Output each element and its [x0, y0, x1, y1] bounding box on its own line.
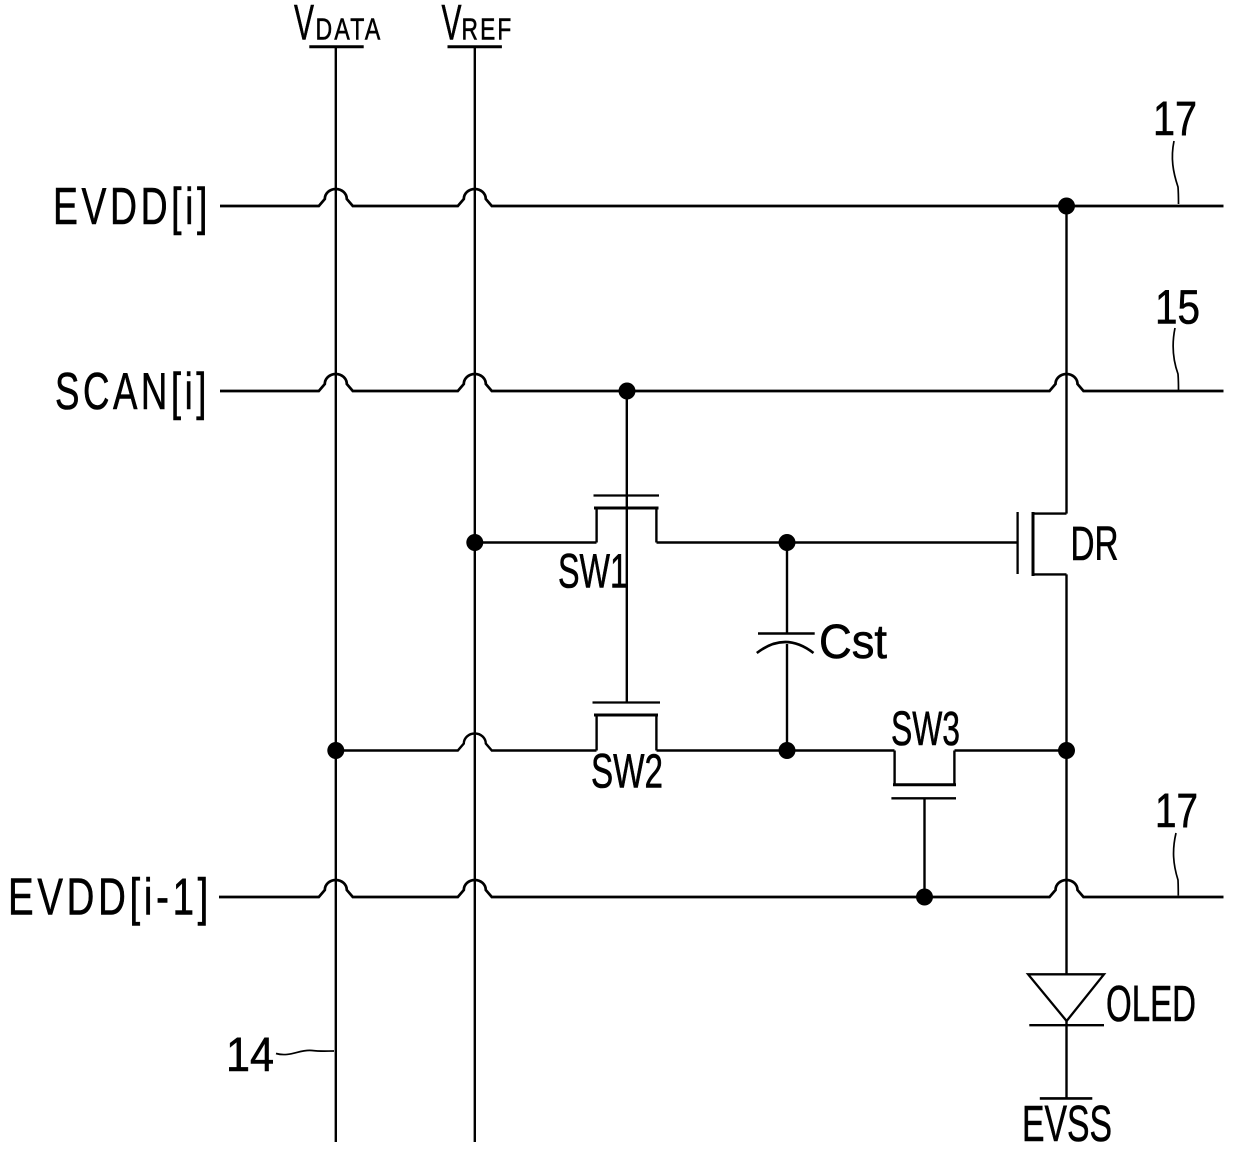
wire VREF vertical bus	[474, 48, 476, 1142]
svg-text:V: V	[442, 0, 462, 51]
svg-text:15: 15	[1155, 282, 1200, 335]
leader line for 15	[1173, 328, 1178, 390]
wire node B row: SW2 to Cst bottom and SW3	[657, 749, 895, 751]
diode OLED	[1028, 974, 1104, 1098]
svg-text:DR: DR	[1071, 518, 1119, 571]
junction on EVDD[i-1] at SW3 gate	[916, 889, 933, 906]
wire node B row: SW3 to DR source column	[955, 749, 1067, 751]
node VREF terminal bar	[448, 45, 502, 48]
junction node B at DR source column	[1058, 742, 1075, 759]
junction node B at Cst bottom	[779, 742, 796, 759]
transistor SW2	[593, 703, 661, 751]
svg-text:SW2: SW2	[591, 746, 663, 799]
junction on SCAN[i] at gate wire	[619, 383, 636, 400]
wire SCAN to SW1/SW2 gates	[626, 391, 628, 703]
svg-text:Cst: Cst	[819, 616, 887, 669]
junction on EVDD[i] at DR drain	[1058, 198, 1075, 215]
transistor SW3	[891, 751, 956, 898]
wire EVDD[i] row line 17	[220, 189, 1224, 206]
transistor DR	[1018, 512, 1067, 576]
svg-text:17: 17	[1153, 93, 1197, 146]
svg-text:DATA: DATA	[316, 12, 383, 47]
svg-text:EVDD[i]: EVDD[i]	[53, 178, 211, 236]
transistor SW1	[594, 496, 660, 543]
svg-text:V: V	[294, 0, 314, 51]
svg-text:EVDD[i-1]: EVDD[i-1]	[8, 869, 212, 927]
wire SCAN[i] row line 15	[220, 374, 1224, 391]
wire node B row: VDATA to SW2	[336, 734, 597, 751]
svg-text:OLED: OLED	[1106, 975, 1196, 1032]
svg-text:REF: REF	[462, 12, 514, 47]
svg-text:14: 14	[226, 1029, 274, 1082]
junction on VDATA at node B	[327, 742, 344, 759]
wire node A row: SW1 drain to Cst top and DR gate	[657, 541, 1018, 543]
svg-text:SW1: SW1	[558, 546, 628, 599]
junction on VREF at node A	[466, 534, 483, 551]
wire EVDD[i-1] row line 17	[219, 880, 1224, 897]
svg-text:SCAN[i]: SCAN[i]	[55, 363, 210, 421]
wire EVDD[i] to DR drain	[1065, 206, 1067, 514]
capacitor Cst	[757, 543, 815, 751]
wire DR source to node B	[1065, 574, 1067, 750]
wire VDATA vertical bus	[335, 48, 337, 1142]
leader line for 17 bottom	[1174, 833, 1179, 896]
leader line for 17 top	[1172, 141, 1178, 204]
node EVSS terminal bar	[1040, 1097, 1093, 1100]
junction node A at Cst top	[779, 534, 796, 551]
wire node B to OLED anode	[1065, 751, 1067, 975]
svg-text:EVSS: EVSS	[1022, 1095, 1112, 1152]
wire node A row: VREF to SW1 source	[475, 541, 597, 543]
svg-text:17: 17	[1155, 785, 1198, 838]
svg-text:SW3: SW3	[891, 703, 960, 756]
leader line for 14	[276, 1050, 334, 1054]
node VDATA terminal bar	[309, 45, 363, 48]
